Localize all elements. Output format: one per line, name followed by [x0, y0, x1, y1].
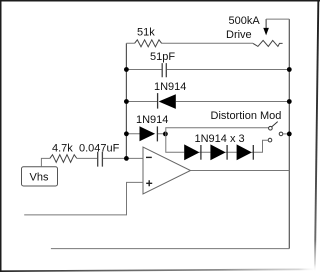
junction dot	[287, 99, 292, 104]
svg-text:1N914 x 3: 1N914 x 3	[195, 133, 245, 145]
wire R2 to C2	[77, 157, 97, 159]
plus symbol	[146, 180, 152, 186]
junction dot	[124, 67, 129, 72]
resistor R2 4.7k	[50, 155, 77, 163]
diode D5	[237, 144, 252, 160]
junction dot	[287, 132, 292, 137]
wire non-inverting input return	[24, 182, 143, 215]
svg-text:Vhs: Vhs	[30, 172, 49, 184]
switch SW1 common contact	[279, 132, 283, 136]
junction dot	[124, 99, 129, 104]
junction dot	[124, 156, 129, 161]
svg-text:1N914: 1N914	[154, 81, 186, 93]
wire 51pF row	[126, 69, 289, 71]
wire D2 row	[126, 133, 165, 135]
capacitor C2 0.047uF	[98, 152, 103, 167]
wire ground rail	[51, 248, 289, 250]
border frame right	[314, 0, 319, 272]
svg-text:500kA: 500kA	[229, 15, 261, 27]
op-amp U1	[143, 147, 191, 194]
border frame bottom	[0, 268, 318, 272]
wire op-amp output	[191, 170, 290, 172]
resistor R1 51k	[135, 40, 162, 47]
junction dot	[124, 131, 129, 136]
wire top rail	[126, 42, 253, 44]
border frame left	[0, 0, 2, 272]
svg-text:1N914: 1N914	[136, 114, 168, 126]
wire upper switch branch	[166, 128, 269, 134]
switch SW1 throw contact 1	[269, 126, 273, 130]
diode D3	[184, 144, 199, 160]
svg-text:51k: 51k	[137, 26, 155, 38]
potentiometer VR1 500kA Drive	[253, 40, 283, 46]
node A: inverting-input bus (left vertical)	[125, 43, 127, 158]
svg-text:4.7k: 4.7k	[52, 143, 73, 155]
wire C2 to op-amp inverting input	[103, 157, 143, 159]
svg-text:0.047uF: 0.047uF	[79, 143, 120, 155]
junction dot	[287, 67, 292, 72]
svg-text:Drive: Drive	[226, 29, 252, 41]
diode D4	[210, 144, 225, 160]
wire D1 row	[126, 101, 289, 103]
svg-text:51pF: 51pF	[150, 51, 175, 63]
Vhs source box	[22, 167, 58, 186]
diode D1 1N914 (points left)	[157, 93, 159, 109]
wiper arrow of VR1	[265, 19, 267, 29]
wire wiper to output bus	[266, 18, 289, 20]
diode D2 1N914 (points right)	[140, 126, 156, 141]
wire common to bus	[283, 133, 287, 135]
minus symbol	[146, 156, 152, 158]
capacitor C1 51pF	[162, 63, 166, 77]
junction dot node C	[163, 132, 168, 137]
node B: output bus (right vertical)	[288, 19, 290, 249]
wire Vhs to R2	[41, 158, 49, 166]
wire 3-diode branch	[166, 134, 268, 153]
switch SW1 lever	[272, 122, 278, 127]
svg-text:Distortion Mod: Distortion Mod	[211, 110, 282, 122]
switch SW1 throw contact 2	[268, 138, 272, 142]
border frame top	[0, 0, 320, 2]
